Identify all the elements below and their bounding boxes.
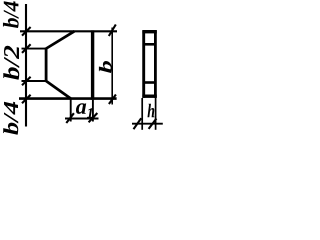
a1 tick right: [89, 113, 98, 122]
h dimension line: [132, 123, 163, 125]
a1 dimension line: [65, 118, 99, 120]
side view right edge: [154, 30, 157, 98]
b dimension line: [111, 28, 113, 105]
left dimension line: [25, 4, 27, 127]
bottom edge: [19, 97, 117, 100]
extension line 3b/4: [22, 80, 47, 82]
h right extension line: [155, 98, 157, 130]
extension line b/4: [22, 48, 47, 50]
a1 right extension line: [92, 100, 94, 122]
label a1: [76, 103, 92, 117]
a1 left extension line: [70, 99, 72, 122]
top diagonal: [46, 31, 75, 49]
bottom diagonal: [46, 81, 72, 99]
side view inner line upper: [143, 43, 156, 46]
side view bottom edge: [142, 94, 156, 97]
right edge of plate: [91, 30, 94, 99]
left edge of trapezoid: [45, 48, 48, 82]
label b/4 bottom: [3, 102, 18, 135]
h left extension line: [141, 98, 143, 130]
label b/2 middle: [3, 46, 19, 80]
top edge: [20, 30, 117, 32]
tick at 3b/4 level: [22, 77, 31, 86]
label b: [99, 61, 112, 73]
label b/4 top: [3, 1, 19, 28]
tick at top edge: [22, 27, 31, 36]
tick at b/4 level: [22, 44, 31, 53]
h tick left: [134, 118, 142, 129]
side view left edge: [142, 30, 145, 98]
side view inner line lower: [143, 81, 156, 84]
label h: [147, 104, 154, 118]
h tick right: [149, 119, 157, 129]
b tick bottom: [109, 95, 116, 105]
a1 tick left: [66, 113, 74, 123]
tick at bottom edge: [22, 95, 31, 104]
b tick top: [109, 25, 116, 37]
side view top edge: [142, 30, 156, 33]
